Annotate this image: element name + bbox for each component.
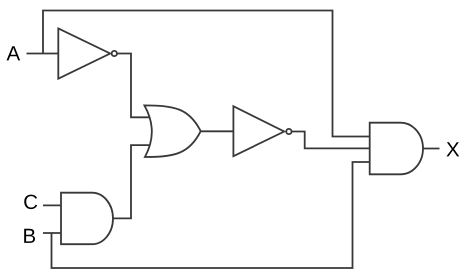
OR gate U2: [144, 105, 200, 157]
AND gate U4 (inputs C and B): [61, 193, 113, 245]
wire node-B branch along bottom to AND U5 bottom input: [52, 162, 372, 268]
label input A: [7, 46, 21, 60]
label input C: [24, 195, 37, 210]
wire AND U4 output to OR U2 bottom input: [114, 145, 152, 218]
wire input B: [43, 232, 62, 234]
inverter U3 (NOT gate after OR): [233, 106, 291, 156]
wire node-A riser and top feed to AND U5 top input: [43, 11, 371, 137]
wire inverter U3 output to AND U5 middle input: [292, 132, 371, 149]
wire input C: [43, 204, 62, 206]
wire input A: [27, 53, 59, 55]
AND gate U5 (output X): [370, 123, 423, 175]
label input B: [24, 229, 35, 243]
inverter U1 (NOT gate on A): [58, 28, 117, 78]
wire inverter U1 output to OR U2 top input: [117, 54, 151, 118]
wire OR U2 output to inverter U3 input: [200, 130, 234, 132]
wire output X: [423, 148, 440, 150]
label output X: [446, 142, 459, 156]
